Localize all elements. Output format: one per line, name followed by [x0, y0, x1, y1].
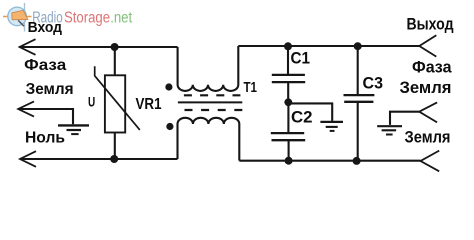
transformer screen solid line	[178, 101, 242, 103]
svg-text:.net: .net	[110, 10, 133, 27]
svg-text:Фаза: Фаза	[412, 58, 452, 76]
svg-text:U: U	[88, 94, 95, 110]
wire VR1 bottom to node	[114, 133, 116, 160]
svg-text:Земля: Земля	[26, 81, 74, 98]
svg-text:Земля: Земля	[405, 128, 451, 146]
connector arrow input phase	[20, 39, 36, 55]
node dot top C3	[354, 42, 362, 50]
svg-text:VR1: VR1	[136, 96, 162, 113]
connector fork output phase	[419, 35, 436, 56]
ground (output)	[377, 126, 402, 134]
node dot top C1	[284, 42, 292, 50]
wire input neutral	[20, 158, 178, 160]
transformer core dashed line lower	[185, 109, 243, 111]
capacitor C2	[271, 102, 305, 161]
svg-text:Storage: Storage	[64, 10, 110, 27]
wire node to VR1 top	[114, 47, 116, 76]
transformer core dashed line upper	[184, 94, 241, 96]
varistor VR1 diagonal	[95, 66, 140, 130]
svg-text:Вход: Вход	[28, 20, 62, 36]
svg-text:Земля: Земля	[400, 79, 452, 97]
node dot C1/C2	[284, 98, 292, 106]
wire C1C2 midpoint to ground	[288, 103, 332, 121]
logo text RadioStorage.net	[32, 10, 133, 27]
svg-text:Фаза: Фаза	[24, 57, 66, 74]
wire input earth	[18, 109, 73, 124]
capacitor C3	[344, 46, 375, 161]
ground (C1C2 midpoint)	[320, 122, 343, 131]
wire output phase	[238, 45, 419, 47]
logo icon	[3, 3, 32, 32]
wire input phase	[20, 46, 178, 48]
svg-text:T1: T1	[244, 79, 258, 96]
varistor VR1 body	[105, 75, 125, 132]
node dot neutral/VR1	[110, 155, 118, 163]
svg-text:Выход: Выход	[407, 15, 454, 33]
connector arrow input earth	[18, 101, 34, 116]
node dot bottom C3	[353, 157, 361, 165]
svg-text:C1: C1	[291, 49, 311, 67]
transformer T1 secondary winding	[178, 118, 240, 161]
transformer T1 primary polarity dot	[165, 83, 172, 90]
ground (input)	[58, 125, 89, 134]
connector fork output neutral	[421, 151, 440, 172]
connector arrow input neutral	[20, 151, 36, 167]
wire output neutral	[239, 160, 420, 162]
svg-text:Ноль: Ноль	[25, 130, 65, 147]
wire output earth	[390, 112, 419, 125]
svg-text:C3: C3	[363, 75, 384, 93]
transformer T1 secondary polarity dot	[166, 123, 173, 130]
connector fork output earth	[419, 102, 437, 122]
capacitor C1	[272, 46, 305, 102]
transformer T1 primary winding	[178, 46, 239, 91]
svg-text:C2: C2	[291, 107, 313, 126]
node dot phase/VR1	[111, 43, 119, 51]
node dot bottom C2	[285, 157, 293, 165]
